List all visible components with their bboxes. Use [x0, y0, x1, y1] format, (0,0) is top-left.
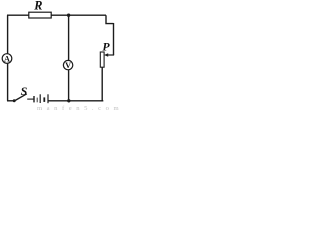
- battery cell plate long (rightmost): [47, 94, 49, 103]
- svg-text:manfen5.com: manfen5.com: [37, 105, 120, 111]
- background: [0, 0, 120, 111]
- wire: wiper horizontal lead: [107, 54, 114, 56]
- wire: right vertical down to wiper level: [113, 23, 115, 55]
- resistor R box: [29, 12, 51, 18]
- ammeter A: [2, 54, 12, 64]
- svg-text:A: A: [4, 54, 10, 63]
- wire: left vertical (top-left corner down to bottom-left corner): [7, 15, 9, 101]
- battery cell plate short thin (leftmost): [36, 98, 38, 103]
- switch S fixed-contact lead: [27, 98, 34, 100]
- wire: top horizontal from left corner to step corner: [7, 14, 106, 16]
- wire: bottom horizontal from battery to bottom-right corner: [48, 100, 103, 102]
- node: junction dot top (voltmeter tap): [67, 14, 70, 17]
- wire: top-right step down: [106, 15, 114, 23]
- svg-text:R: R: [33, 0, 42, 13]
- voltmeter V: [63, 60, 72, 69]
- svg-text:V: V: [65, 61, 71, 70]
- svg-text:S: S: [21, 84, 28, 98]
- wire: bottom horizontal left piece (corner to switch pivot): [7, 100, 15, 102]
- battery cell plate long: [39, 94, 41, 103]
- switch S fixed-contact tick: [33, 96, 35, 102]
- rheostat P box: [100, 52, 104, 67]
- node: junction dot bottom (voltmeter tap): [67, 99, 70, 102]
- battery cell plate short thick: [43, 97, 45, 102]
- wire: rheostat bottom lead down to bottom wire: [102, 67, 103, 101]
- wire: voltmeter branch vertical: [68, 15, 70, 101]
- switch S pivot dot: [13, 99, 16, 102]
- svg-text:P: P: [102, 40, 110, 54]
- arrowhead of wiper pointing left into rheostat: [104, 53, 108, 57]
- switch S blade: [14, 94, 27, 101]
